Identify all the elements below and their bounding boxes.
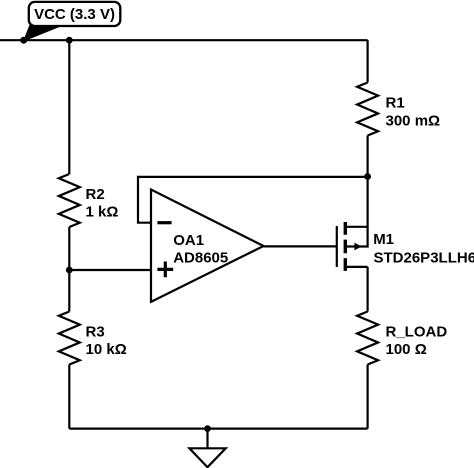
wire left rail lower (R3 to bottom rail) (68, 365, 70, 429)
svg-text:1 kΩ: 1 kΩ (86, 204, 119, 221)
op-amp minus sign (157, 221, 171, 224)
resistor R3 (59, 312, 80, 365)
transistor M1 gate bar (336, 226, 338, 267)
VCC flag box (29, 2, 121, 26)
op-amp plus sign (157, 262, 173, 278)
wire top rail VCC (0, 39, 368, 41)
svg-text:R_LOAD: R_LOAD (386, 324, 448, 341)
wire right rail lower (R_LOAD to bottom rail) (367, 365, 369, 429)
op-amp U1 triangle (151, 190, 264, 302)
svg-text:STD26P3LLH6: STD26P3LLH6 (374, 249, 474, 266)
svg-text:R3: R3 (86, 324, 105, 341)
svg-text:R2: R2 (86, 186, 105, 203)
svg-text:300 mΩ: 300 mΩ (386, 113, 441, 130)
wire left rail middle (R2 to R3) (68, 227, 70, 312)
wire non-inverting input (69, 269, 151, 271)
node VCC flag attachment (20, 37, 27, 44)
wire bottom rail (69, 428, 367, 430)
svg-text:VCC (3.3 V): VCC (3.3 V) (34, 6, 115, 23)
wire left rail upper (node VCC to R2) (68, 40, 70, 174)
wire ground stub (206, 429, 208, 449)
ground (189, 448, 225, 467)
svg-text:100 Ω: 100 Ω (386, 341, 427, 358)
resistor R1 (357, 83, 378, 136)
transistor M1 body arrow (354, 243, 361, 251)
wire right rail (MOSFET drain to R_LOAD) (367, 267, 369, 312)
node VCC/R2 junction (66, 37, 73, 44)
svg-text:M1: M1 (373, 231, 394, 248)
svg-text:OA1: OA1 (173, 232, 204, 249)
node drain/R1 junction (364, 173, 371, 180)
transistor M1 drain connection (345, 266, 367, 268)
wire feedback (inverting input to drain node) (138, 177, 368, 223)
svg-text:10 kΩ: 10 kΩ (86, 341, 127, 358)
wire right rail upper (top rail to R1) (367, 40, 369, 82)
node ground junction (204, 425, 211, 432)
resistor R_LOAD (357, 312, 378, 365)
wire right rail (R1 to MOSFET source) (367, 136, 369, 227)
transistor M1 channel bars (344, 222, 347, 271)
node R2/R3/+input junction (66, 267, 73, 274)
resistor R2 (59, 174, 80, 227)
VCC flag pointer (24, 25, 63, 41)
transistor M1 source connection (345, 227, 367, 247)
svg-text:AD8605: AD8605 (173, 249, 228, 266)
svg-text:R1: R1 (386, 95, 405, 112)
wire op-amp output to gate (264, 245, 337, 247)
